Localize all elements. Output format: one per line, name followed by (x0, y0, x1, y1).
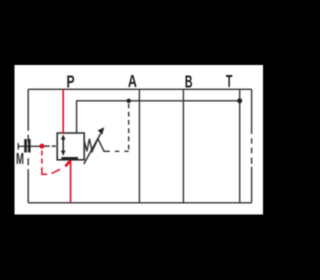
junction dot at A (127, 99, 131, 103)
divider line 2 (B) (182, 89, 184, 203)
white panel (15, 65, 264, 215)
svg-text:B: B (185, 73, 193, 92)
red P line upper (62, 90, 64, 134)
red pilot arrow head (65, 161, 70, 167)
red P line lower (70, 160, 72, 202)
plate outline top edge (28, 88, 251, 90)
junction dot at T (237, 98, 242, 103)
valve seat thick bar (62, 157, 79, 160)
valve body V1 (57, 133, 84, 160)
T line (239, 89, 241, 203)
adjustment arrow (84, 134, 101, 164)
red junction dot (39, 144, 44, 149)
svg-text:T: T (226, 73, 233, 92)
dashed wire dot to valve (44, 145, 56, 147)
svg-text:A: A (128, 72, 137, 92)
drain wire from valve to T (77, 101, 240, 133)
pilot wire dashed horizontal to spring (107, 150, 129, 152)
svg-text:M: M (16, 149, 24, 167)
plate outline right edge (dashed mid) (251, 89, 253, 203)
red pilot dashed line (42, 151, 60, 175)
plate outline bottom edge (28, 202, 251, 204)
svg-text:P: P (66, 72, 74, 92)
divider line 1 (138, 89, 140, 203)
spring (84, 139, 107, 152)
gauge port bars M (24, 139, 27, 153)
valve flow arrow (double head) (61, 134, 66, 155)
pilot wire dashed vertical from A dot (128, 104, 130, 152)
gauge stub wire M (18, 145, 40, 147)
gauge stub end cap (17, 143, 19, 150)
plate outline left edge (dashed at M port) (27, 89, 29, 203)
